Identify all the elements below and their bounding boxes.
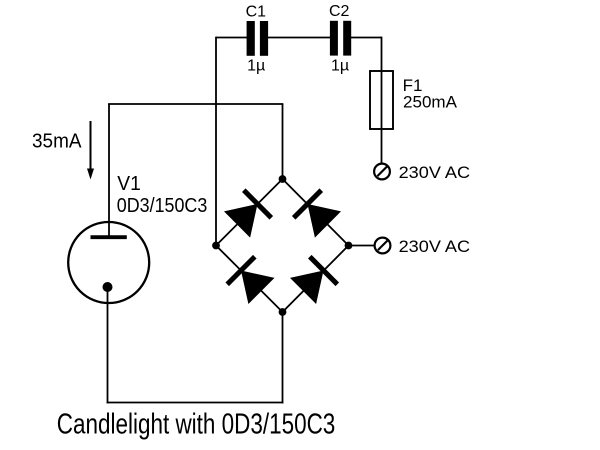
node left (AC in) — [212, 242, 220, 250]
wire horizontal V1 to bridge top — [108, 103, 283, 105]
wire bridge side bottom-right — [283, 246, 349, 313]
node right (AC in) — [345, 242, 353, 250]
wire left vertical (top rail to bridge left node) — [215, 37, 217, 246]
terminal upper 230V AC — [374, 164, 390, 180]
diode D3 (bottom node to left node) — [227, 257, 274, 304]
diode D4 (bottom node to right node) — [290, 257, 337, 304]
wire C2 to right corner — [351, 37, 382, 39]
svg-text:1µ: 1µ — [247, 57, 265, 74]
svg-text:0D3/150C3: 0D3/150C3 — [117, 195, 208, 217]
svg-text:Candlelight with 0D3/150C3: Candlelight with 0D3/150C3 — [57, 409, 336, 441]
wire V1 cathode down — [107, 287, 109, 403]
wire bottom rail — [107, 402, 284, 404]
wire right node to lower terminal — [350, 245, 375, 247]
fuse F1 — [370, 71, 393, 129]
terminal lower 230V AC — [375, 238, 391, 254]
node bottom (DC minus) — [279, 308, 287, 316]
svg-text:1µ: 1µ — [331, 57, 349, 74]
current arrow 35mA — [87, 121, 94, 180]
svg-text:V1: V1 — [117, 173, 141, 195]
wire between C1 and C2 — [268, 37, 331, 39]
node top (DC plus) — [279, 175, 287, 183]
wire bridge side left-bottom — [216, 246, 283, 313]
svg-text:250mA: 250mA — [403, 92, 458, 111]
svg-text:230V AC: 230V AC — [399, 163, 471, 182]
svg-text:35mA: 35mA — [32, 130, 82, 152]
wire V1 anode feed vertical — [108, 104, 110, 237]
capacitor C1 — [247, 21, 269, 56]
wire top rail left segment — [216, 37, 248, 39]
svg-text:C2: C2 — [329, 3, 350, 20]
wire fuse to upper terminal — [381, 129, 383, 164]
svg-text:C1: C1 — [246, 3, 267, 20]
wire right vertical to fuse — [381, 37, 383, 72]
diode D1 (left node to top node) — [224, 190, 271, 237]
tube V1 (0D3 regulator) — [68, 222, 149, 303]
svg-text:230V AC: 230V AC — [399, 237, 471, 256]
wire bridge bottom node down — [282, 312, 284, 403]
capacitor C2 — [330, 21, 351, 56]
wire bridge side top-right — [283, 179, 349, 246]
wire vertical down to bridge top node — [282, 104, 284, 179]
diode D2 (right node to top node) — [294, 190, 341, 237]
wire bridge side left-top — [216, 179, 283, 246]
